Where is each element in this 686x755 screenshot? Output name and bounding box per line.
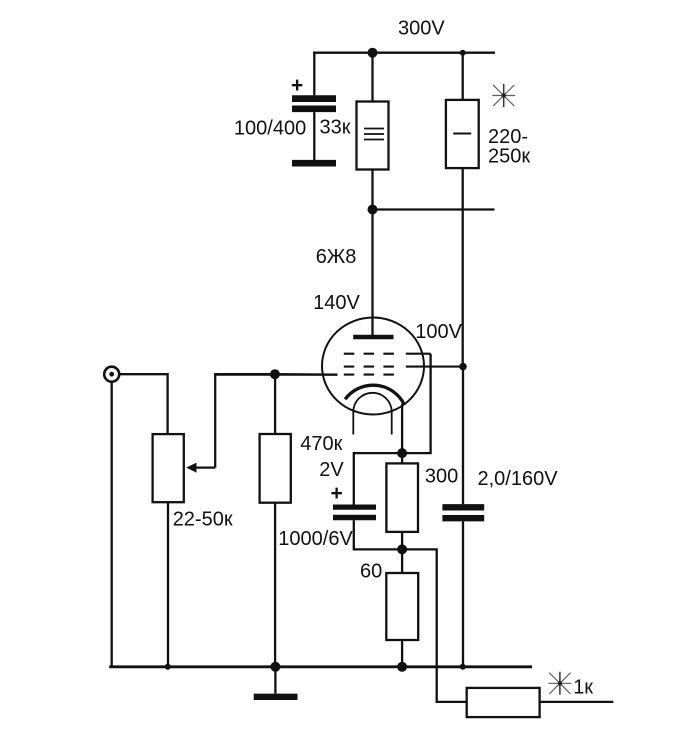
svg-text:33к: 33к: [320, 117, 351, 139]
wire wiper riser and grid wire: [215, 374, 275, 467]
svg-text:60: 60: [360, 561, 382, 583]
svg-text:2V: 2V: [319, 459, 344, 481]
resistor R1 33k body: [357, 102, 389, 170]
svg-text:100V: 100V: [415, 321, 462, 343]
svg-text:+: +: [331, 482, 343, 505]
wire anode lead into tube: [371, 210, 373, 337]
wire screen node down to C3 top plate: [462, 367, 464, 505]
label R3 value 22-50k: [173, 509, 233, 531]
wire suppressor to cathode node: [402, 354, 431, 453]
label C1 polarity +: [291, 74, 303, 97]
label R2 value 220-250k: [488, 126, 530, 168]
wire C1 bottom lead: [313, 112, 315, 160]
svg-text:300: 300: [425, 466, 458, 488]
ground symbol: [254, 667, 298, 697]
resistor R5 300 body: [386, 463, 418, 532]
wire grid wire continues to tube: [275, 373, 338, 376]
node small dot C3 lead / ground rail: [460, 664, 466, 670]
capacitor C1 100/400 plates: [292, 99, 336, 109]
svg-text:2,0/160V: 2,0/160V: [478, 468, 559, 490]
label C2 value 1000/6V: [278, 528, 353, 550]
node small dot screen grid / R2 line: [459, 363, 467, 371]
node small dot pot lead / ground rail: [165, 664, 171, 670]
wire node to feedback drop: [402, 549, 467, 702]
wire control grid to left: [215, 373, 337, 375]
tube V1 filament dome: [353, 393, 391, 412]
star symbol near R7: [548, 672, 571, 695]
wire R2 bottom lead down to screen node: [462, 168, 464, 367]
svg-text:140V: 140V: [313, 292, 360, 314]
wire R4 top lead: [274, 374, 276, 434]
label 300V: [398, 18, 445, 40]
capacitor C3 2,0/160V plates: [442, 507, 484, 518]
capacitor C2 1000/6V plates: [333, 507, 376, 517]
label R7 value 1k: [573, 677, 593, 699]
svg-text:300V: 300V: [398, 18, 445, 40]
resistor R2 220-250k body: [446, 100, 479, 168]
wire filament right leg: [391, 411, 393, 435]
tube V1 screen grid dashes: [344, 366, 463, 368]
potentiometer R3 22-50k body: [153, 434, 184, 502]
tube V1 suppressor grid dashes: [344, 353, 431, 355]
tube V1 control grid dashes: [344, 374, 395, 376]
svg-text:+: +: [291, 74, 303, 97]
resistor R4 470k body: [260, 434, 291, 503]
node junction dot grid wire / R4: [270, 369, 280, 379]
label C2 polarity +: [331, 482, 343, 505]
svg-text:1000/6V: 1000/6V: [278, 528, 353, 550]
resistor R7 1k body: [467, 688, 540, 717]
svg-text:100/400: 100/400: [234, 118, 306, 140]
svg-text:6Ж8: 6Ж8: [316, 246, 357, 268]
label R4 value 470k: [300, 433, 342, 455]
label R1 value 33k: [320, 117, 351, 139]
wire 300V top rail: [313, 52, 495, 54]
label tube type 6Zh8: [316, 246, 357, 268]
wire R1 bottom lead to anode node: [371, 170, 373, 210]
node junction dot R5 / R6 node: [397, 544, 407, 554]
wire R2 top lead: [462, 53, 464, 100]
wire pot bottom lead: [167, 502, 169, 667]
ground rail: [109, 665, 532, 668]
ground bar under C1: [292, 160, 336, 167]
wire filament left leg: [352, 411, 354, 435]
tube V1 anode bar: [353, 335, 393, 340]
wire R7 right lead: [540, 701, 614, 703]
node junction dot R4 / ground rail: [270, 662, 280, 672]
node junction dot at 300V rail / 33k: [368, 48, 378, 58]
wire terminal drop to ground: [111, 382, 113, 667]
wire C2 bottom lead: [354, 520, 402, 549]
label 100V: [415, 321, 462, 343]
svg-text:22-50к: 22-50к: [173, 509, 233, 531]
node small dot at 300V rail / 220-250k: [460, 50, 466, 56]
wire R1 top lead: [371, 53, 373, 102]
node junction dot cathode node: [397, 448, 407, 458]
label R6 value 60: [360, 561, 382, 583]
svg-text:1к: 1к: [573, 677, 593, 699]
node junction dot anode node: [368, 205, 378, 215]
wire pot wiper arrow: [186, 463, 215, 473]
wire R5 bottom lead: [401, 532, 403, 550]
wire R4 bottom lead to ground: [274, 503, 276, 667]
wire R5 top lead: [401, 453, 403, 463]
label 2V: [319, 459, 344, 481]
wire anode output to right: [373, 208, 495, 210]
resistor R6 60 body: [386, 573, 418, 640]
label C1 value 100/400: [234, 118, 306, 140]
tube V1 envelope: [322, 318, 424, 415]
wire C1 top lead: [313, 52, 315, 96]
input terminal X1: [104, 367, 119, 382]
wire terminal to potentiometer top: [119, 374, 167, 434]
label R5 value 300: [425, 466, 458, 488]
wire C3 bottom lead down to ground rail: [462, 521, 464, 666]
wire R6 top lead: [401, 549, 403, 573]
node junction dot R6 / ground rail: [397, 662, 407, 672]
wire cathode lead down: [401, 404, 403, 453]
star symbol near R2: [492, 84, 515, 107]
svg-text:470к: 470к: [300, 433, 342, 455]
svg-text:250к: 250к: [488, 146, 530, 168]
wire R6 bottom lead: [401, 640, 403, 667]
label C3 value 2,0/160V: [478, 468, 559, 490]
label 140V: [313, 292, 360, 314]
wire cathode node to C2 top: [354, 453, 402, 504]
tube V1 cathode arc: [345, 385, 404, 404]
